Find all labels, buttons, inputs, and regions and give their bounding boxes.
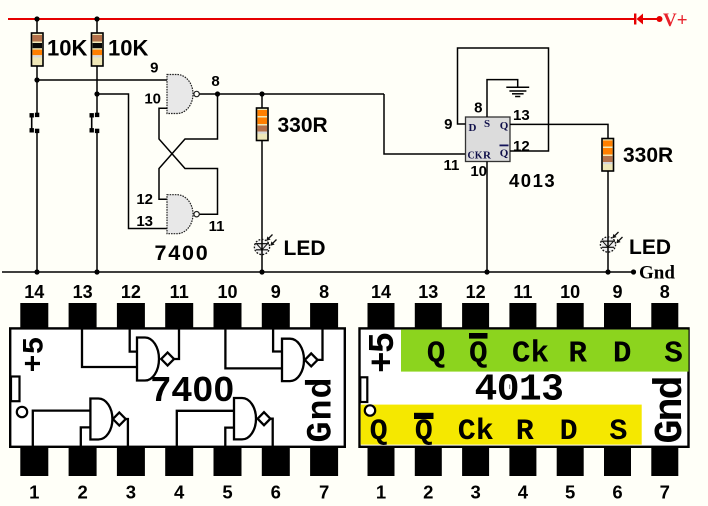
svg-text:Gnd: Gnd (649, 377, 694, 443)
svg-text:Q: Q (415, 415, 433, 449)
Gnd rail end dot (631, 269, 636, 274)
svg-text:9: 9 (612, 282, 622, 302)
node 8 dot (215, 91, 220, 96)
svg-text:10: 10 (144, 91, 161, 108)
wire: U1A output to node 8 (199, 93, 384, 95)
svg-text:+5: +5 (363, 333, 404, 373)
svg-text:2: 2 (423, 482, 433, 503)
7400 notch mark (11, 377, 20, 402)
svg-text:330R: 330R (278, 114, 328, 137)
svg-text:10: 10 (470, 163, 487, 180)
svg-text:10K: 10K (108, 36, 148, 61)
switch S1 (30, 80, 39, 272)
7400 DIP top pins (20, 303, 338, 328)
svg-text:13: 13 (418, 282, 438, 302)
wire: Q output to R4 (510, 124, 608, 139)
svg-text:Q: Q (500, 148, 509, 160)
svg-text:CK: CK (468, 151, 483, 162)
svg-text:11: 11 (209, 218, 225, 235)
node: R pin at gnd rail (484, 269, 489, 274)
svg-text:D: D (469, 122, 477, 134)
wire: node B to pin 13 (97, 94, 168, 229)
svg-text:4: 4 (518, 482, 529, 503)
svg-text:14: 14 (24, 282, 44, 302)
svg-text:7: 7 (660, 482, 670, 503)
svg-text:LED: LED (629, 236, 671, 259)
svg-text:13: 13 (73, 282, 93, 302)
4013 flip-flop box (466, 117, 511, 162)
wire: node 8 to 4013 CK (384, 94, 466, 154)
4013 DIP bottom pins (368, 448, 679, 476)
svg-text:Q: Q (427, 337, 446, 372)
wire: D to Qbar feedback loop (458, 48, 549, 151)
svg-text:10: 10 (560, 282, 580, 302)
svg-text:3: 3 (470, 482, 480, 503)
svg-text:10K: 10K (47, 36, 87, 61)
node B dot (94, 91, 99, 96)
node A dot (34, 77, 39, 82)
svg-text:7: 7 (319, 482, 329, 503)
svg-text:S: S (664, 337, 683, 372)
svg-text:R: R (483, 150, 492, 162)
svg-text:S: S (484, 118, 490, 130)
svg-text:8: 8 (319, 282, 329, 302)
svg-text:Q: Q (469, 337, 488, 372)
svg-text:9: 9 (444, 116, 452, 133)
resistor R4 330R body (602, 139, 614, 172)
svg-text:9: 9 (271, 282, 281, 302)
svg-text:4: 4 (174, 482, 185, 503)
DIP gate BR (4,5 -> 6) (177, 398, 273, 447)
green band labels Q Qbar Ck R D S (427, 337, 683, 372)
yellow band Qbar overbar (414, 413, 434, 419)
wire: R3 to LED1 (261, 141, 263, 241)
node: R1 at V+ (34, 16, 39, 21)
wire: R2 top lead (96, 19, 98, 34)
wire: R2 bottom lead to node B (96, 66, 98, 116)
svg-text:11: 11 (444, 157, 460, 174)
svg-text:12: 12 (121, 282, 141, 302)
LED D2 (600, 232, 622, 272)
7400 top pin numbers (24, 282, 329, 302)
wire: R1 bottom lead to node A (36, 66, 38, 81)
DIP gate TL (12,13 -> 11) (82, 328, 179, 381)
4013 DIP body (360, 328, 689, 446)
svg-text:R: R (516, 415, 534, 449)
svg-text:9: 9 (150, 60, 158, 77)
svg-text:12: 12 (466, 282, 486, 302)
svg-text:1: 1 (29, 482, 39, 503)
svg-text:7400: 7400 (150, 371, 234, 412)
svg-text:6: 6 (271, 482, 281, 503)
svg-text:2: 2 (77, 482, 87, 503)
node: R2 at V+ (94, 16, 99, 21)
LED D1 (254, 235, 276, 273)
wire: node A to gate pin 9 (37, 79, 168, 81)
svg-text:5: 5 (565, 482, 575, 503)
svg-text:Gnd: Gnd (639, 263, 675, 284)
7400 DIP bottom pins (20, 448, 338, 476)
wire: R pin to gnd rail (486, 162, 488, 273)
svg-text:S: S (609, 415, 627, 449)
V+ rail arrow (634, 14, 663, 25)
svg-text:8: 8 (211, 73, 219, 90)
4013 top pin numbers (371, 282, 670, 302)
V+ power rail (8, 18, 635, 20)
svg-text:3: 3 (126, 482, 136, 503)
4013 notch mark (360, 377, 367, 402)
svg-text:Q: Q (370, 415, 388, 449)
svg-text:Ck: Ck (458, 415, 494, 449)
svg-text:13: 13 (136, 213, 153, 230)
resistor R2 10K body (92, 33, 104, 66)
svg-text:13: 13 (513, 107, 530, 124)
node: S2 at gnd rail (94, 269, 99, 274)
DIP gate BL (1,2 -> 3) (33, 399, 128, 448)
4013 yellow band (361, 405, 642, 445)
svg-text:V+: V+ (663, 10, 688, 31)
node: S1 at gnd rail (34, 269, 39, 274)
svg-text:D: D (613, 337, 632, 372)
svg-text:5: 5 (222, 482, 232, 503)
svg-text:8: 8 (660, 282, 670, 302)
svg-text:D: D (560, 415, 578, 449)
ground rail (2, 271, 634, 273)
4013 bottom pin numbers (376, 482, 670, 503)
wire: R4 to LED2 (607, 171, 609, 238)
svg-text:LED: LED (284, 237, 326, 260)
wire: cross-couple from node 8 to pin 12 (159, 94, 218, 199)
7400 pin1 circle (17, 407, 27, 417)
svg-text:1: 1 (376, 482, 386, 503)
svg-text:8: 8 (474, 100, 482, 117)
DIP gate TR (9,10 -> 8) (225, 328, 322, 381)
svg-text:11: 11 (170, 282, 189, 302)
resistor R3 330R top lead (261, 94, 263, 109)
svg-text:Q: Q (500, 120, 509, 132)
svg-text:12: 12 (136, 191, 153, 208)
wire: S pin to ground (487, 80, 518, 117)
svg-text:10: 10 (217, 282, 237, 302)
NAND gate U1B (pins 12,13 -> 11) (167, 195, 199, 234)
4013 green band (401, 330, 689, 372)
7400 bottom pin numbers (29, 482, 329, 503)
svg-text:7400: 7400 (155, 241, 210, 265)
svg-text:R: R (568, 337, 587, 372)
node: 330R tap dot (259, 91, 264, 96)
4013 DIP top pins (368, 303, 679, 328)
box label Qbar (500, 145, 509, 160)
svg-text:330R: 330R (623, 144, 673, 167)
node: LED2 at gnd rail (605, 269, 610, 274)
svg-text:4013: 4013 (509, 170, 556, 191)
4013 pin1 circle (365, 405, 375, 415)
svg-text:11: 11 (513, 282, 532, 302)
svg-text:Ck: Ck (512, 337, 549, 372)
green band Qbar overbar (469, 333, 488, 339)
7400 DIP body (10, 328, 345, 446)
node: LED1 at gnd rail (259, 269, 264, 274)
wire: R1 top lead (36, 19, 38, 34)
switch S2 (90, 113, 99, 272)
svg-text:4013: 4013 (475, 369, 564, 412)
svg-text:14: 14 (371, 282, 391, 302)
NAND gate U1A (pins 9,10 -> 8) (167, 75, 199, 114)
svg-text:Gnd: Gnd (302, 376, 342, 442)
svg-text:12: 12 (513, 138, 530, 155)
svg-text:6: 6 (612, 482, 622, 503)
resistor R1 10K body (32, 33, 44, 66)
resistor R3 330R body (257, 108, 269, 141)
yellow band labels Q Qbar Ck R D S (370, 415, 628, 449)
svg-text:+5: +5 (19, 336, 53, 372)
wire: cross-couple from U1B output to pin 10 (159, 108, 218, 214)
ground symbol (506, 87, 529, 96)
